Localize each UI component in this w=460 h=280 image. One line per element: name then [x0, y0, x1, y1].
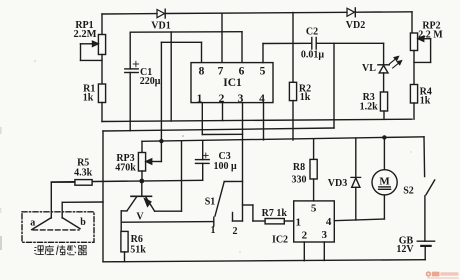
svg-text:1k: 1k — [83, 93, 94, 104]
wire IC2 pin4 / VD3 / motor bottom — [334, 219, 384, 221]
svg-text:S1: S1 — [205, 197, 216, 208]
transistor V — [121, 141, 181, 232]
svg-text:3: 3 — [322, 229, 328, 241]
wire x171 — [170, 32, 172, 121]
resistor R1 — [98, 84, 105, 122]
wire IC1 pin3 long vertical — [242, 103, 244, 221]
svg-text:1: 1 — [211, 225, 216, 236]
diode VD3 — [351, 138, 361, 220]
capacitor C1 — [125, 32, 139, 131]
node RP3 top junction — [159, 139, 163, 143]
resistor R3 — [380, 92, 387, 119]
svg-text:R8: R8 — [293, 162, 305, 173]
wire dot-wire (RP3/C3/R8/M net) — [142, 137, 424, 142]
svg-text:S2: S2 — [403, 186, 414, 197]
potentiometer RP3 — [138, 141, 161, 181]
wire IC2 pin3 — [323, 242, 325, 261]
svg-text:VD3: VD3 — [328, 178, 347, 189]
svg-text:2.2 M: 2.2 M — [418, 30, 443, 41]
svg-text:2: 2 — [302, 230, 308, 242]
wire left edge x103 — [102, 131, 104, 262]
switch S1 — [214, 181, 243, 226]
capacitor C2 — [312, 38, 384, 50]
svg-text:1.2k: 1.2k — [360, 102, 379, 113]
svg-text:5: 5 — [260, 66, 266, 78]
svg-text:IC2: IC2 — [272, 235, 288, 246]
resistor R8 — [310, 139, 317, 201]
svg-text:1k: 1k — [300, 92, 311, 103]
svg-text:3: 3 — [238, 93, 244, 105]
wire R2 top — [292, 13, 294, 83]
resistor R7 — [253, 219, 294, 224]
resistor R5 — [51, 180, 92, 218]
resistor R6 — [121, 231, 128, 261]
wire railX — [103, 128, 334, 131]
svg-text:R6: R6 — [131, 234, 143, 245]
svg-text:51k: 51k — [130, 244, 146, 255]
IC IC1 box — [191, 63, 273, 103]
humidity sensor electrodes — [32, 218, 80, 230]
wire R5/RP3/C3 net — [51, 180, 202, 182]
diode VD1 — [157, 9, 165, 18]
led VL — [378, 43, 402, 92]
wire IC1 pin5 — [262, 44, 264, 63]
svg-text:1: 1 — [296, 217, 302, 229]
svg-text:IC1: IC1 — [223, 77, 242, 89]
switch S2 — [424, 137, 435, 241]
svg-text:470k: 470k — [115, 163, 136, 174]
wire pin3 net jog to R7 — [243, 204, 253, 206]
humidity sensor box — [22, 212, 94, 243]
svg-text:4: 4 — [326, 216, 332, 228]
wire IC1 pin2 — [222, 103, 224, 121]
svg-text:100 μ: 100 μ — [214, 161, 238, 172]
wire top rail — [102, 13, 157, 15]
svg-text:VL: VL — [362, 63, 376, 74]
svg-text:2: 2 — [233, 226, 238, 237]
IC IC2 box — [294, 201, 335, 242]
svg-text:a: a — [30, 218, 35, 229]
svg-text:VD1: VD1 — [151, 21, 170, 32]
wire rail1 (bottom rail of top section) — [102, 119, 412, 121]
svg-text:2: 2 — [219, 93, 225, 105]
svg-text:2.2M: 2.2M — [73, 29, 96, 40]
wire bottom rail — [103, 260, 425, 262]
svg-text:220μ: 220μ — [140, 76, 161, 87]
wire IC1 pin4 — [263, 103, 265, 140]
svg-text:C2: C2 — [306, 27, 318, 38]
potentiometer RP1 — [81, 14, 106, 84]
battery GB — [417, 241, 434, 260]
svg-text:4: 4 — [259, 93, 265, 105]
svg-text:1: 1 — [197, 93, 203, 105]
svg-text:5: 5 — [311, 202, 317, 214]
node motor junction — [382, 135, 386, 139]
resistor R2 — [289, 82, 296, 140]
wire IC1 pin1 jog — [201, 103, 203, 135]
scan artifacts — [0, 60, 412, 252]
wire C1 / pin6 net — [130, 31, 242, 34]
svg-text:VD2: VD2 — [346, 20, 365, 31]
label 湿度传感器 (pseudo CJK strokes) — [34, 245, 87, 255]
potentiometer RP2 — [410, 12, 430, 85]
resistor R4 — [410, 85, 417, 120]
svg-text:7: 7 — [218, 66, 224, 78]
svg-text:b: b — [80, 217, 86, 228]
svg-text:4.3k: 4.3k — [74, 168, 93, 179]
svg-text:1k: 1k — [420, 95, 431, 106]
svg-text:V: V — [136, 212, 144, 223]
svg-text:6: 6 — [239, 66, 245, 78]
svg-text:330: 330 — [292, 174, 307, 185]
svg-text:0.01μ: 0.01μ — [301, 50, 325, 61]
wire IC2 pin2 — [303, 242, 305, 261]
svg-text:12V: 12V — [396, 244, 414, 255]
wire C2 right down to railX — [333, 43, 335, 128]
wire V emitter to S1 — [121, 221, 214, 224]
svg-text:R7 1k: R7 1k — [262, 208, 288, 219]
diode VD2 — [347, 8, 355, 17]
node RP3 bottom junction — [139, 179, 144, 184]
svg-text:8: 8 — [199, 66, 205, 78]
motor M — [372, 137, 397, 219]
wire sensor b — [62, 201, 103, 203]
wire pin7 to top rail — [221, 13, 223, 62]
capacitor C3 — [196, 141, 210, 181]
wire pin8 net — [161, 41, 201, 43]
watermark red logo — [426, 271, 459, 278]
svg-text:M: M — [379, 176, 390, 188]
